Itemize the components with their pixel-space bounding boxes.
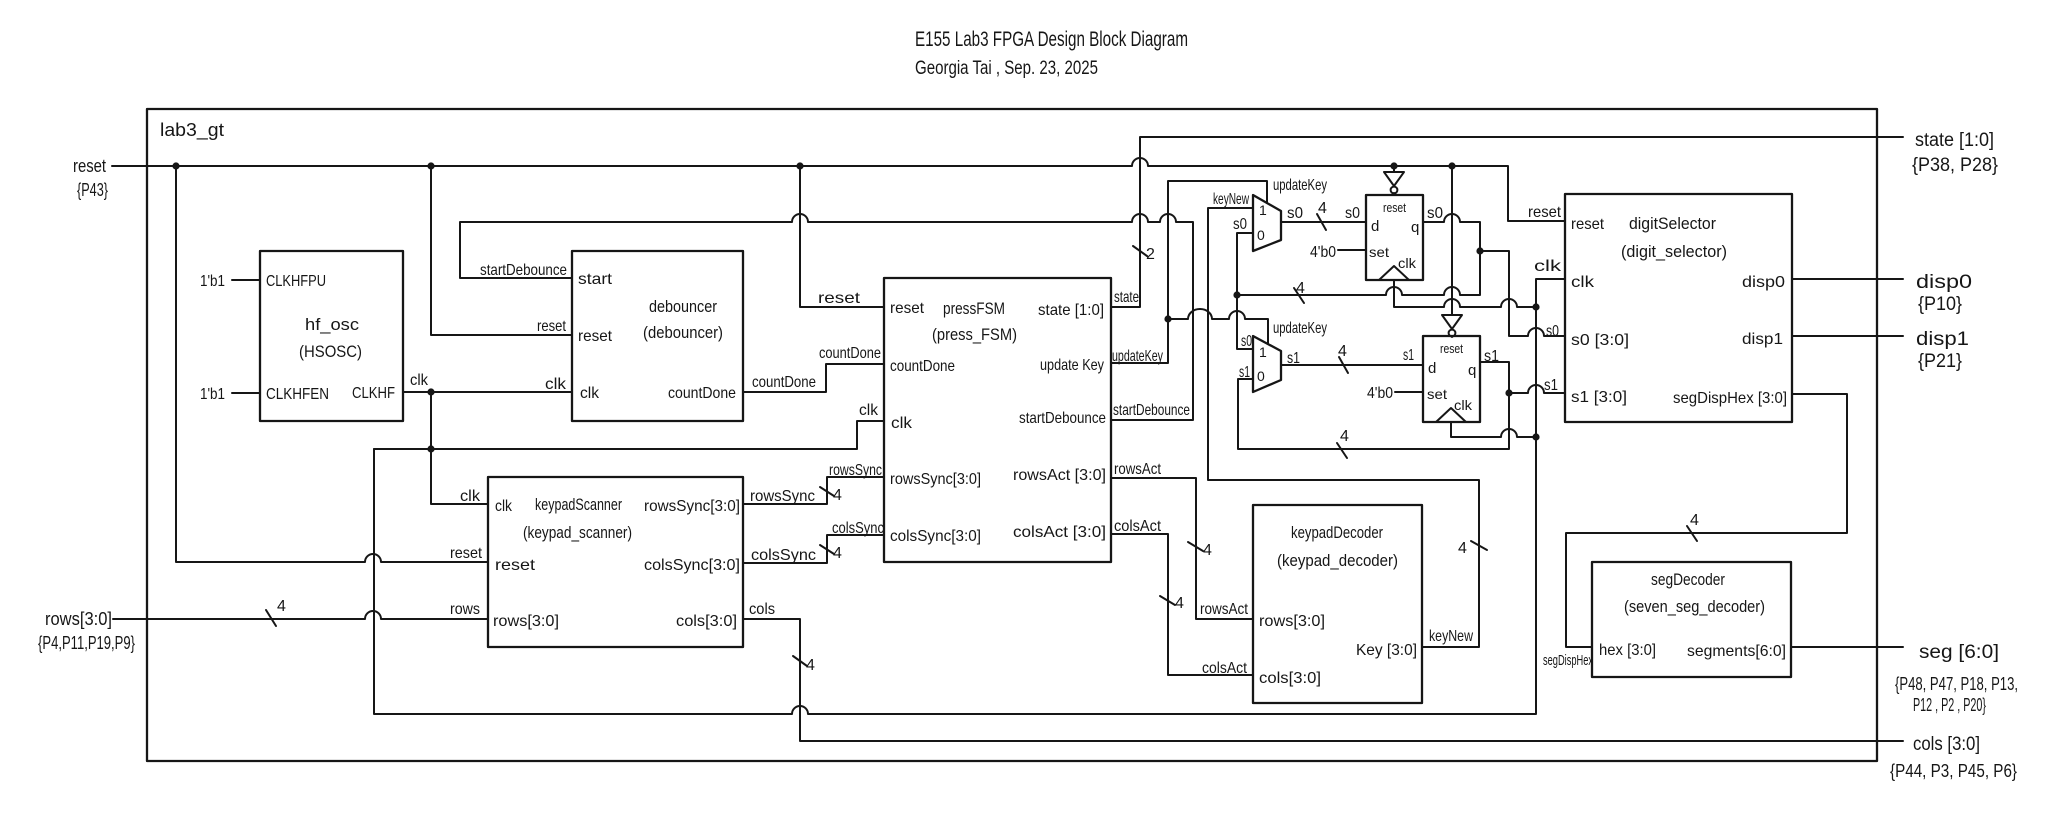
svg-text:reset: reset	[1383, 200, 1406, 215]
junction clk at hf_osc output	[427, 388, 434, 395]
svg-text:countDone: countDone	[752, 374, 816, 391]
svg-text:4: 4	[1296, 280, 1305, 297]
svg-text:s1: s1	[1544, 377, 1558, 394]
wire segDispHex[3:0] digitSelector to segDecoder hex	[1543, 394, 1847, 669]
svg-text:countDone: countDone	[890, 358, 955, 375]
wire reset to debouncer	[431, 166, 572, 335]
svg-text:cols[3:0]: cols[3:0]	[1259, 670, 1321, 687]
svg-text:state [1:0]: state [1:0]	[1038, 302, 1104, 319]
flip-flop FF2 (s1 register)	[1423, 336, 1480, 422]
svg-text:rowsAct: rowsAct	[1200, 601, 1248, 618]
junction reset/pressFSM branch	[796, 162, 803, 169]
svg-text:reset: reset	[578, 328, 613, 345]
svg-text:{P10}: {P10}	[1918, 294, 1962, 315]
input port rows[3:0] {P4,P11,P19,P9}	[38, 609, 135, 653]
svg-text:clk: clk	[891, 415, 913, 432]
svg-text:(seven_seg_decoder): (seven_seg_decoder)	[1624, 597, 1765, 616]
svg-text:{P4,P11,P19,P9}: {P4,P11,P19,P9}	[38, 633, 135, 653]
junction clk distribution	[427, 445, 434, 452]
svg-text:clk: clk	[410, 372, 429, 389]
wire colsAct[3:0] pressFSM to keypadDecoder	[1111, 518, 1253, 677]
svg-text:CLKHFPU: CLKHFPU	[266, 273, 326, 290]
svg-text:q: q	[1468, 362, 1476, 379]
svg-text:s0: s0	[1546, 323, 1559, 340]
wire countDone debouncer to pressFSM	[743, 345, 884, 392]
svg-text:s0: s0	[1241, 333, 1252, 350]
svg-text:colsSync[3:0]: colsSync[3:0]	[890, 528, 981, 545]
svg-text:rowsSync: rowsSync	[750, 488, 815, 505]
svg-text:countDone: countDone	[819, 345, 881, 362]
svg-text:countDone: countDone	[668, 385, 736, 402]
wire 4'b0 to FF2 set	[1367, 385, 1423, 402]
svg-text:debouncer: debouncer	[649, 297, 717, 316]
svg-text:clk: clk	[1398, 255, 1417, 271]
svg-text:1'b1: 1'b1	[200, 273, 225, 290]
wire s0 FF1 q to digitSelector and feedback	[1233, 205, 1565, 340]
wire rows[3:0] to keypadScanner	[113, 598, 488, 626]
svg-text:clk: clk	[580, 385, 600, 402]
mux M2 (s1 select mux)	[1253, 336, 1281, 392]
svg-text:4: 4	[1340, 428, 1349, 445]
svg-text:state: state	[1114, 289, 1139, 306]
svg-text:rows[3:0]: rows[3:0]	[493, 613, 559, 630]
svg-text:reset: reset	[1440, 341, 1463, 356]
svg-text:set: set	[1427, 386, 1447, 402]
output port cols[3:0] labels	[1890, 734, 2017, 781]
svg-text:s1: s1	[1484, 348, 1499, 365]
svg-text:1: 1	[1259, 344, 1267, 360]
svg-text:clk: clk	[460, 488, 481, 505]
svg-text:cols [3:0]: cols [3:0]	[1913, 734, 1980, 755]
svg-text:clk: clk	[859, 402, 879, 419]
svg-text:reset: reset	[1528, 204, 1562, 221]
svg-text:P12 , P2 , P20}: P12 , P2 , P20}	[1913, 695, 1986, 715]
constant 1'b1 to CLKHFEN	[200, 386, 260, 403]
wire keyNew keypadDecoder Key[3:0] to mux M1 input 1	[1208, 191, 1487, 647]
svg-text:colsSync[3:0]: colsSync[3:0]	[644, 557, 740, 574]
svg-text:s1: s1	[1403, 347, 1414, 364]
wire disp0 digitSelector to output {P10}	[1792, 272, 1972, 315]
svg-text:d: d	[1371, 218, 1379, 235]
svg-text:(keypad_scanner): (keypad_scanner)	[523, 523, 632, 542]
svg-text:rowsAct [3:0]: rowsAct [3:0]	[1013, 467, 1106, 484]
svg-text:digitSelector: digitSelector	[1629, 214, 1716, 233]
svg-text:segDispHex: segDispHex	[1543, 652, 1593, 669]
svg-text:reset: reset	[890, 300, 925, 317]
svg-text:clk: clk	[1571, 274, 1595, 291]
wire cols[3:0] keypadScanner to output {P44,P3,P45,P6}	[743, 601, 1903, 741]
svg-text:rowsAct: rowsAct	[1114, 461, 1161, 478]
title text	[915, 28, 1188, 79]
svg-text:CLKHF: CLKHF	[352, 385, 395, 402]
svg-text:colsSync: colsSync	[832, 520, 884, 537]
outer module box lab3_gt	[147, 109, 1877, 761]
svg-text:s1 [3:0]: s1 [3:0]	[1571, 389, 1627, 406]
svg-text:4: 4	[1203, 542, 1212, 559]
svg-text:startDebounce: startDebounce	[1019, 410, 1106, 427]
wire clk FF1 branch	[1394, 280, 1536, 307]
svg-text:colsAct [3:0]: colsAct [3:0]	[1013, 524, 1106, 541]
junction reset/FF1	[1390, 162, 1397, 169]
svg-text:set: set	[1369, 244, 1389, 260]
junction reset/FF2	[1448, 162, 1455, 169]
svg-text:start: start	[578, 271, 613, 288]
svg-text:updateKey: updateKey	[1273, 177, 1327, 194]
svg-text:clk: clk	[1454, 397, 1473, 413]
svg-text:disp1: disp1	[1916, 329, 1969, 350]
svg-text:{P38, P28}: {P38, P28}	[1912, 155, 1998, 176]
svg-text:disp0: disp0	[1916, 272, 1972, 293]
junction s1 branch to digitSelector	[1505, 389, 1512, 396]
svg-text:keyNew: keyNew	[1213, 191, 1249, 208]
svg-text:s1: s1	[1239, 364, 1250, 381]
svg-text:4'b0: 4'b0	[1367, 385, 1393, 402]
flip-flop FF1 (s0 register)	[1366, 195, 1423, 280]
wire clk to pressFSM	[374, 402, 884, 449]
wire clk down to clk distribution row	[431, 392, 488, 504]
svg-text:segDispHex [3:0]: segDispHex [3:0]	[1673, 390, 1787, 407]
block U7 segDecoder (seven_seg_decoder)	[1592, 562, 1791, 677]
junction s0 branch to digitSelector	[1476, 247, 1483, 254]
svg-text:reset: reset	[73, 156, 106, 176]
svg-text:cols: cols	[749, 601, 775, 618]
svg-text:E155 Lab3 FPGA Design Block Di: E155 Lab3 FPGA Design Block Diagram	[915, 28, 1188, 51]
svg-text:rowsSync[3:0]: rowsSync[3:0]	[644, 498, 740, 515]
svg-text:clk: clk	[545, 376, 567, 393]
svg-text:d: d	[1428, 360, 1436, 377]
svg-text:seg [6:0]: seg [6:0]	[1919, 642, 1999, 663]
wire reset to keypadScanner	[176, 166, 488, 562]
wire reset trunk (input to FF resets and digitSelector)	[112, 158, 1565, 221]
svg-text:reset: reset	[495, 557, 536, 574]
svg-text:state [1:0]: state [1:0]	[1915, 130, 1994, 151]
svg-text:(HSOSC): (HSOSC)	[299, 342, 362, 361]
wire 4'b0 to FF1 set	[1310, 244, 1366, 261]
svg-text:updateKey: updateKey	[1112, 348, 1163, 365]
junction s0 feedback at mux M1 input 0 riser	[1233, 291, 1240, 298]
svg-text:rows[3:0]: rows[3:0]	[1259, 613, 1325, 630]
svg-text:keypadDecoder: keypadDecoder	[1291, 523, 1383, 542]
svg-text:s0: s0	[1345, 205, 1360, 222]
block U4 pressFSM (press_FSM)	[884, 278, 1111, 562]
svg-text:4: 4	[833, 487, 842, 504]
svg-text:4: 4	[1690, 512, 1699, 529]
svg-text:keyNew: keyNew	[1429, 628, 1473, 645]
svg-text:lab3_gt: lab3_gt	[160, 120, 224, 141]
svg-text:4'b0: 4'b0	[1310, 244, 1336, 261]
svg-text:4: 4	[1338, 343, 1347, 360]
svg-text:4: 4	[833, 545, 842, 562]
wire startDebounce feedback loop	[460, 214, 1193, 420]
svg-text:segDecoder: segDecoder	[1651, 570, 1725, 589]
wire s0 mux M1 output to FF1 d	[1281, 200, 1366, 230]
wire rowsAct[3:0] pressFSM to keypadDecoder	[1111, 461, 1253, 619]
svg-text:startDebounce: startDebounce	[1113, 402, 1190, 419]
wire colsSync[3:0] keypadScanner to pressFSM	[743, 520, 884, 564]
block U2 debouncer	[572, 251, 743, 421]
wire clk FF2 branch	[1451, 422, 1536, 437]
wire state[1:0] pressFSM to output {P38,P28}	[1111, 137, 1903, 307]
svg-text:clk: clk	[495, 498, 513, 515]
svg-text:rows: rows	[450, 601, 480, 618]
flip-flop FF1 reset inverter symbol	[1384, 166, 1404, 195]
svg-text:2: 2	[1146, 246, 1155, 263]
svg-text:startDebounce: startDebounce	[480, 262, 567, 279]
block U5 keypadDecoder (keypad_decoder)	[1253, 505, 1422, 703]
svg-text:hex [3:0]: hex [3:0]	[1599, 642, 1656, 659]
svg-text:4: 4	[1175, 595, 1184, 612]
svg-text:{P43}: {P43}	[77, 180, 108, 200]
svg-text:updateKey: updateKey	[1273, 320, 1327, 337]
svg-text:pressFSM: pressFSM	[943, 299, 1005, 318]
svg-text:Georgia Tai , Sep. 23, 2025: Georgia Tai , Sep. 23, 2025	[915, 58, 1098, 79]
svg-text:4: 4	[277, 598, 286, 615]
wire clk bottom run to right side flops and digitSelector	[374, 258, 1565, 714]
junction updateKey branch	[1164, 315, 1171, 322]
output port state[1:0] labels	[1912, 130, 1998, 176]
svg-text:hf_osc: hf_osc	[305, 315, 360, 334]
mux M1 (s0 select mux)	[1253, 195, 1281, 251]
input port reset {P43}	[73, 156, 108, 200]
svg-text:CLKHFEN: CLKHFEN	[266, 386, 329, 403]
wire s1 FF2 q to digitSelector and feedback to mux M2 input 0	[1238, 348, 1565, 458]
svg-text:segments[6:0]: segments[6:0]	[1687, 643, 1786, 660]
svg-text:reset: reset	[537, 318, 566, 335]
svg-text:rowsSync: rowsSync	[829, 462, 882, 479]
svg-text:(debouncer): (debouncer)	[643, 323, 723, 342]
svg-text:(press_FSM): (press_FSM)	[932, 325, 1017, 344]
flip-flop FF2 reset inverter symbol	[1442, 166, 1462, 337]
svg-text:rows[3:0]: rows[3:0]	[45, 609, 112, 629]
wire reset to pressFSM	[800, 166, 884, 307]
svg-text:colsAct: colsAct	[1114, 518, 1161, 535]
svg-text:reset: reset	[1571, 216, 1605, 233]
wire s1 mux M2 output to FF2 d	[1281, 343, 1423, 373]
svg-text:(keypad_decoder): (keypad_decoder)	[1277, 551, 1398, 570]
wire updateKey pressFSM to mux selects	[1111, 177, 1327, 365]
svg-text:cols[3:0]: cols[3:0]	[676, 613, 737, 630]
junction reset/keypadScanner branch	[172, 162, 179, 169]
svg-text:4: 4	[1458, 540, 1467, 557]
svg-text:colsAct: colsAct	[1202, 660, 1247, 677]
svg-text:Key [3:0]: Key [3:0]	[1356, 642, 1417, 659]
svg-text:keypadScanner: keypadScanner	[535, 495, 622, 514]
svg-text:0: 0	[1257, 227, 1265, 243]
svg-text:{P44, P3, P45, P6}: {P44, P3, P45, P6}	[1890, 761, 2017, 781]
wire clk net (hf_osc CLKHF output trunk)	[403, 372, 572, 393]
svg-text:4: 4	[806, 657, 815, 674]
svg-text:disp0: disp0	[1742, 274, 1785, 291]
wire disp1 digitSelector to output {P21}	[1792, 329, 1969, 372]
block U1 hf_osc (HSOSC)	[260, 251, 403, 421]
junction clk/FF2 branch	[1532, 433, 1539, 440]
svg-text:{P21}: {P21}	[1918, 351, 1962, 372]
svg-text:s0: s0	[1287, 205, 1303, 222]
svg-text:{P48, P47, P18, P13,: {P48, P47, P18, P13,	[1895, 674, 2018, 694]
svg-text:0: 0	[1257, 368, 1265, 384]
constant 1'b1 to CLKHFPU	[200, 273, 260, 290]
wire rowsSync[3:0] keypadScanner to pressFSM	[743, 462, 884, 505]
svg-text:s1: s1	[1287, 350, 1300, 367]
wire seg[6:0] segDecoder to output {P48,P47,P18,P13,P12,P2,P20}	[1791, 642, 2018, 715]
svg-text:update Key: update Key	[1040, 357, 1104, 374]
wire s0 riser to mux M2 input 1	[1237, 295, 1253, 350]
svg-text:q: q	[1411, 219, 1419, 236]
svg-text:s0 [3:0]: s0 [3:0]	[1571, 332, 1629, 349]
svg-text:1: 1	[1259, 202, 1267, 218]
svg-text:reset: reset	[450, 545, 482, 562]
svg-text:disp1: disp1	[1742, 331, 1783, 348]
svg-text:4: 4	[1318, 200, 1327, 217]
svg-text:s0: s0	[1233, 216, 1247, 233]
svg-text:1'b1: 1'b1	[200, 386, 225, 403]
svg-text:colsSync: colsSync	[751, 547, 816, 564]
junction reset/debouncer branch	[427, 162, 434, 169]
svg-text:clk: clk	[1534, 258, 1562, 275]
block U6 digitSelector (digit_selector)	[1565, 194, 1792, 422]
svg-text:s0: s0	[1427, 205, 1443, 222]
block U3 keypadScanner (keypad_scanner)	[488, 477, 743, 647]
svg-text:(digit_selector): (digit_selector)	[1621, 242, 1727, 261]
svg-text:rowsSync[3:0]: rowsSync[3:0]	[890, 471, 981, 488]
svg-text:reset: reset	[818, 290, 861, 307]
junction clk/digitSelector riser top	[1532, 303, 1539, 310]
